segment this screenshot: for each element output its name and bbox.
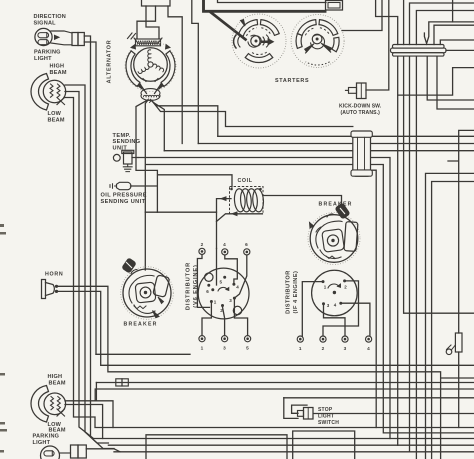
label DISTRIBUTOR (IF 4 ENGINE) <box>285 270 299 314</box>
svg-text:STARTERS: STARTERS <box>275 78 309 84</box>
svg-text:4: 4 <box>236 284 239 289</box>
connector C1 bulkhead <box>391 45 447 57</box>
svg-text:HORN: HORN <box>45 271 63 277</box>
wire right edge loop <box>398 68 474 96</box>
wire coil rotor lead <box>217 197 232 249</box>
svg-text:SWITCH: SWITCH <box>318 420 339 426</box>
wire headlamp lead A <box>65 85 108 443</box>
svg-text:BEAM: BEAM <box>48 118 65 124</box>
terminal D1-5 bottom <box>245 336 251 351</box>
svg-text:BREAKER: BREAKER <box>319 202 353 208</box>
svg-text:(IF 4 ENGINE): (IF 4 ENGINE) <box>293 271 299 314</box>
svg-text:5: 5 <box>220 279 223 284</box>
svg-text:BEAM: BEAM <box>49 380 66 386</box>
wire headlamp lead B <box>65 92 103 439</box>
terminal D1-6 top <box>244 242 250 255</box>
wire D1 t4 lead <box>225 255 238 282</box>
wire regulator lead 2 <box>137 6 156 39</box>
svg-text:5: 5 <box>246 346 249 351</box>
wire kick-down feed <box>366 0 389 90</box>
terminal D2-3 bottom <box>342 336 348 351</box>
svg-text:2: 2 <box>201 242 204 247</box>
wire C1 pin6 top <box>434 25 474 44</box>
svg-text:PARKING: PARKING <box>33 434 60 440</box>
svg-text:PARKING: PARKING <box>34 50 61 56</box>
wire bundle line3 <box>164 150 474 152</box>
svg-text:STOP: STOP <box>318 407 333 413</box>
wire right line8 <box>432 182 474 459</box>
horn H1 <box>42 280 59 299</box>
wire C1 pin2 top <box>403 0 405 45</box>
wire D1 dot3 to t5 <box>234 300 247 336</box>
wire C1-d down <box>415 56 417 459</box>
wire lamp L3 lead 2 <box>65 405 474 439</box>
connector box bottom B <box>293 431 355 459</box>
svg-text:BREAKER: BREAKER <box>124 321 158 327</box>
switch S2 stop light <box>284 398 313 419</box>
lamp L4 parking bulb (cut) <box>41 446 71 459</box>
label HIGH BEAM (lower) <box>48 374 66 387</box>
svg-text:SENDING UNIT: SENDING UNIT <box>101 199 146 205</box>
label OIL PRESSURE SENDING UNIT <box>101 193 147 206</box>
label BREAKER (right) <box>319 202 353 208</box>
svg-text:BEAM: BEAM <box>50 70 67 76</box>
alternator brush bar <box>134 38 162 46</box>
svg-text:4: 4 <box>223 242 226 247</box>
svg-text:3: 3 <box>327 303 330 308</box>
wire right line7 <box>426 173 474 459</box>
wire bundle line5 <box>146 165 474 433</box>
wire bundle line1 <box>218 135 474 137</box>
alternator A1 <box>125 41 176 92</box>
wire horn lead 1 <box>58 286 474 459</box>
svg-text:LIGHT: LIGHT <box>33 440 51 446</box>
fuse F1 right <box>455 333 462 352</box>
distributor D2 body <box>312 270 358 316</box>
coil K1 <box>230 187 265 215</box>
svg-text:TEMP.: TEMP. <box>113 133 131 139</box>
wire D2 dot4 to t4 <box>341 303 370 336</box>
svg-text:ALTERNATOR: ALTERNATOR <box>107 40 113 84</box>
label STARTERS <box>275 78 309 84</box>
label ALTERNATOR (vertical) <box>107 40 113 84</box>
svg-text:6: 6 <box>206 289 209 294</box>
wire D2 dot2 to t2 <box>323 281 359 336</box>
terminal D2-4 bottom <box>366 336 372 351</box>
label LOW BEAM <box>48 111 65 124</box>
ground marks alternator <box>128 33 136 39</box>
wire bus 445 <box>108 444 474 446</box>
svg-text:OIL PRESSURE: OIL PRESSURE <box>101 193 147 199</box>
wire regulator field lead <box>146 6 159 39</box>
wire C1-c down <box>409 56 411 452</box>
svg-text:6: 6 <box>245 242 248 247</box>
svg-text:SENDING: SENDING <box>113 139 141 145</box>
distributor D2 inner terminals <box>322 279 348 308</box>
label DISTRIBUTOR (V6 ENGINE) <box>186 262 200 310</box>
starter motor M2 <box>291 15 344 68</box>
terminal D1-4 top <box>222 242 228 255</box>
svg-text:SIGNAL: SIGNAL <box>34 21 57 27</box>
svg-text:COIL: COIL <box>238 178 253 184</box>
connector J1 parking lamp <box>72 33 84 46</box>
svg-text:2: 2 <box>344 284 347 289</box>
wire alternator out conduit <box>153 102 353 127</box>
label LOW BEAM (lower) <box>48 422 66 434</box>
wire alternator out jog-left <box>136 101 232 212</box>
terminal D2-2 bottom <box>320 336 326 351</box>
svg-text:HIGH: HIGH <box>48 374 63 380</box>
wire D1 rotor feed <box>216 249 218 286</box>
svg-text:3: 3 <box>223 346 226 351</box>
wire C1-e down <box>427 56 474 100</box>
wire C1 pin7 top <box>440 40 474 45</box>
label TEMP SENDING UNIT <box>113 133 141 152</box>
svg-text:DIRECTION: DIRECTION <box>34 14 67 20</box>
alternator output brushes <box>140 84 161 103</box>
connector solenoid box <box>326 1 343 11</box>
wire coil bottom lead <box>217 212 263 222</box>
connector box bottom A <box>146 435 287 459</box>
terminal D1-1 bottom <box>199 336 205 351</box>
connector bus A end <box>446 345 455 355</box>
label DIRECTION SIGNAL <box>34 14 67 27</box>
svg-text:(V6 ENGINE): (V6 ENGINE) <box>193 264 199 307</box>
svg-text:HIGH: HIGH <box>50 64 65 70</box>
svg-text:DISTRIBUTOR: DISTRIBUTOR <box>186 262 192 310</box>
wire C1-a down <box>397 56 399 445</box>
wire C1 pin3 top <box>410 3 474 45</box>
label HIGH BEAM <box>50 64 67 77</box>
svg-text:1: 1 <box>201 346 204 351</box>
wire C1 pin4 top <box>416 11 474 45</box>
wire C1 pin1 top <box>376 0 398 45</box>
sender OPS oil pressure <box>110 182 157 189</box>
svg-text:LOW: LOW <box>48 111 62 117</box>
wire lamp L3 lead 1b <box>95 383 97 401</box>
wire parking-lamp feed <box>84 36 114 449</box>
wire bus 452 <box>114 451 474 453</box>
wire regulator output lead <box>168 6 182 144</box>
distributor D1 body <box>198 268 249 319</box>
wire bundle line4 <box>138 158 390 439</box>
svg-text:(AUTO TRANS.): (AUTO TRANS.) <box>341 110 381 116</box>
distributor D1 inner terminals <box>206 276 239 313</box>
wire alternator out down-left <box>145 100 148 270</box>
wire bundle line2 <box>198 143 474 145</box>
starter motor M1 <box>232 14 286 68</box>
regulator box <box>142 0 171 6</box>
svg-text:LIGHT: LIGHT <box>318 414 334 420</box>
wire bundle line6 <box>371 170 377 427</box>
wire bus E riser <box>95 389 474 401</box>
label HORN <box>45 271 63 277</box>
svg-text:3: 3 <box>344 346 347 351</box>
lamp L3 headlamp (lower) <box>31 386 66 423</box>
svg-text:2: 2 <box>322 346 325 351</box>
wire C1-b down <box>404 56 474 313</box>
svg-text:KICK-DOWN SW.: KICK-DOWN SW. <box>339 104 382 110</box>
lamp L1 direction-signal/parking bulb <box>35 28 72 45</box>
wire C1-f down <box>437 56 474 109</box>
label PARKING LIGHT (bottom) <box>33 434 60 446</box>
label BREAKER (left) <box>124 321 158 327</box>
wire D2 dot1 to t1 <box>302 282 323 336</box>
wire C1 top stub <box>452 0 454 22</box>
wire stop bus <box>284 397 474 399</box>
sender TS temp <box>113 150 138 171</box>
conduit grommet G1 <box>351 131 372 176</box>
terminal D1-2 top <box>199 242 205 255</box>
terminal D1-3 bottom <box>222 336 228 351</box>
wire headlamp ground lead <box>64 98 113 428</box>
wire battery cable (heavy) <box>204 0 326 40</box>
wire C1 right tail <box>446 49 474 51</box>
wire coil to breaker <box>263 196 342 208</box>
lamp L2 headlamp <box>31 74 66 111</box>
label PARKING LIGHT <box>34 50 61 63</box>
wire D1 dot1 to t1 <box>202 303 211 336</box>
wire feed to coil line <box>145 211 216 213</box>
svg-text:1: 1 <box>214 299 217 304</box>
wire alternator out bundle1 <box>150 100 218 137</box>
scan artifact marks <box>0 224 7 453</box>
breaker B1 (right) <box>308 203 360 264</box>
label STOP LIGHT SWITCH <box>318 407 339 426</box>
svg-text:DISTRIBUTOR: DISTRIBUTOR <box>285 270 291 314</box>
wire bus D connector <box>96 379 474 386</box>
svg-text:LIGHT: LIGHT <box>34 56 52 62</box>
breaker B2 (left) <box>121 258 174 319</box>
wire direction-signal feed <box>84 42 96 354</box>
switch S1 kick-down <box>346 83 367 99</box>
connector J2 parking <box>71 445 87 458</box>
wire stop switch output <box>313 413 474 415</box>
wire harness step <box>192 0 199 144</box>
wire D1 dot2 to t3 <box>223 307 225 336</box>
wire D2 dot3 to t3 <box>324 304 346 336</box>
svg-text:1: 1 <box>299 346 302 351</box>
wire right edge stub2 <box>448 130 474 427</box>
wire D1 t6 lead <box>236 255 247 297</box>
label KICK-DOWN SW. <box>339 104 382 117</box>
svg-text:3: 3 <box>229 298 232 303</box>
wire starter2 solenoid lead <box>342 0 382 31</box>
wire C1 pin5 splice V <box>424 22 474 44</box>
wire alternator out bundle3 <box>154 103 165 151</box>
terminal D2-1 bottom <box>297 336 303 351</box>
wire horn lead 2 <box>58 291 474 365</box>
wire D1 t2 lead <box>197 255 209 308</box>
svg-text:4: 4 <box>334 303 337 308</box>
svg-text:4: 4 <box>367 346 370 351</box>
wire solenoid control <box>218 0 327 3</box>
wire lamp L3 lead 1 <box>65 401 474 428</box>
wire bus A <box>96 353 190 355</box>
svg-text:1: 1 <box>324 285 327 290</box>
label COIL <box>238 178 253 184</box>
wire parking lead <box>86 449 120 452</box>
